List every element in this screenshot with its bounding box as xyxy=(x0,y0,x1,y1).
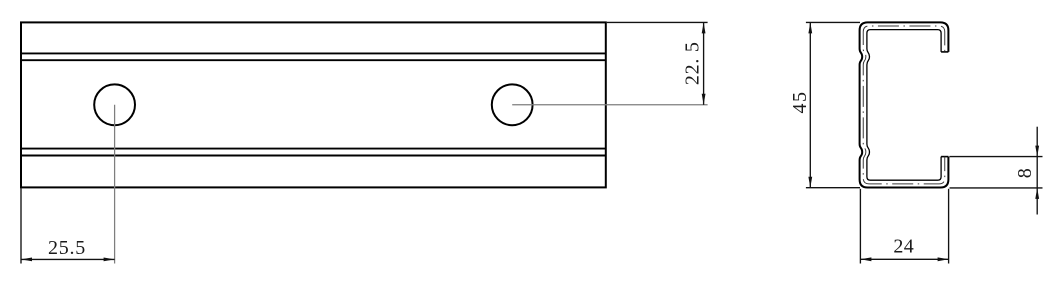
rail body outline xyxy=(21,22,606,187)
dimension 45 extension line top xyxy=(806,21,860,23)
dimension 24 extension line right xyxy=(948,189,950,264)
dimension 8 extension line bottom xyxy=(950,187,1043,189)
hole H2 centerline (right) xyxy=(512,104,707,106)
dimension 8 line xyxy=(1036,127,1038,215)
dimension 24 line xyxy=(860,258,948,260)
top rib groove line 1 xyxy=(21,52,606,54)
dimension 45 line xyxy=(809,22,811,187)
dimension 25.5 extension line xyxy=(20,188,22,263)
dimension 24 arrow left xyxy=(860,257,871,261)
svg-text:25.5: 25.5 xyxy=(48,237,86,259)
dimension 25.5 arrow left xyxy=(21,258,32,262)
hole H1 xyxy=(94,84,135,125)
dimension 22.5 line xyxy=(703,22,705,104)
bottom rib groove line 1 xyxy=(21,148,606,150)
profile inner contour xyxy=(867,30,941,181)
dimension 45 extension line bottom xyxy=(806,187,860,189)
top rib groove line 2 xyxy=(21,59,606,61)
svg-text:24: 24 xyxy=(893,235,914,257)
svg-text:8: 8 xyxy=(1014,168,1036,178)
dimension 8 arrow bottom (pointing up) xyxy=(1035,188,1039,199)
dimension 8 arrow top (pointing down) xyxy=(1035,146,1039,157)
hole H2 xyxy=(492,84,533,125)
dimension 45 arrow top xyxy=(808,22,812,33)
top lip end cap xyxy=(941,51,948,53)
dimension 22.5 extension line xyxy=(607,21,708,23)
dimension 25.5 line xyxy=(21,258,115,260)
svg-text:45: 45 xyxy=(789,91,811,114)
dimension 22.5 arrow bottom xyxy=(702,94,706,105)
profile outer contour xyxy=(860,22,949,187)
svg-text:22. 5: 22. 5 xyxy=(681,41,703,85)
sheet dash-dot centerline xyxy=(863,26,945,184)
dimension 22.5 arrow top xyxy=(702,22,706,33)
dimension 24 extension line left xyxy=(859,189,861,264)
dimension 25.5 arrow right xyxy=(104,258,115,262)
hole H1 centerline (down) xyxy=(114,105,116,264)
dimension 8 extension line top xyxy=(950,156,1043,158)
bottom rib groove line 2 xyxy=(21,155,606,157)
dimension 24 arrow right xyxy=(938,257,949,261)
dimension 45 arrow bottom xyxy=(808,177,812,188)
bottom lip end cap xyxy=(941,156,948,158)
